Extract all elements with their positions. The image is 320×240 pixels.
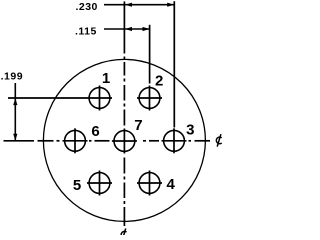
dimension .230 dimension line with arrows (104, 3, 174, 7)
pin 3 contact circle with crosshair (162, 128, 187, 153)
svg-text:.115: .115 (75, 25, 97, 37)
svg-text:.199: .199 (1, 70, 23, 82)
pin 1 contact circle with crosshair (87, 86, 112, 111)
dimension .199 dimension line with arrows (13, 83, 17, 141)
pin 2 contact circle with crosshair (137, 86, 162, 111)
centerline symbol (bottom) (121, 229, 126, 240)
centerline symbol (right) (216, 134, 221, 146)
svg-text:6: 6 (91, 123, 99, 140)
svg-text:.230: .230 (75, 1, 97, 13)
horizontal centerline (solid left portion, also .199 lower extension) (4, 140, 35, 142)
horizontal centerline dash-dot through circle (38, 140, 211, 142)
vertical centerline (solid top portion above circle) (123, 1, 125, 53)
pin 4 contact circle with crosshair (137, 171, 162, 196)
svg-text:3: 3 (186, 122, 194, 139)
pin 7 contact circle with crosshair (112, 129, 137, 154)
svg-text:1: 1 (102, 70, 110, 87)
dimension .115 dimension line with arrows (104, 27, 150, 31)
svg-text:4: 4 (167, 176, 176, 193)
dimension .199 extension line (pin 1 row, horizontal) (8, 97, 87, 99)
svg-text:7: 7 (134, 117, 142, 134)
pin 6 contact circle with crosshair (63, 128, 88, 153)
svg-text:2: 2 (155, 73, 163, 90)
dimension .230 extension line (right, to pin 3) (173, 1, 175, 127)
connector shell outline circle (43, 59, 205, 221)
dimension .115 extension line (middle, to pin 2) (149, 25, 151, 84)
pin 5 contact circle with crosshair (87, 171, 112, 196)
svg-text:5: 5 (73, 177, 81, 194)
vertical centerline dash-dot through circle (123, 57, 125, 227)
